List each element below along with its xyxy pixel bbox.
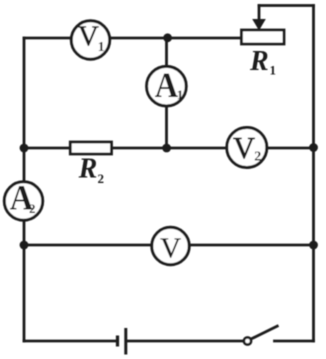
svg-text:A: A [155, 65, 179, 105]
rheostat R1 wiper arrowhead [252, 19, 266, 31]
voltmeter V [152, 227, 189, 264]
resistor R1 (rheostat body) [242, 30, 285, 44]
node junction V row left [20, 241, 29, 250]
voltmeter V2 [227, 128, 267, 168]
node junction top (A1 tap) [163, 33, 172, 42]
svg-text:R: R [249, 46, 269, 77]
node junction V row right [309, 241, 318, 250]
wire middle bus [24, 147, 314, 150]
ammeter A1 [147, 66, 187, 106]
ammeter A2 [4, 182, 42, 220]
wire bottom right stub [275, 340, 314, 343]
svg-text:V: V [160, 233, 181, 265]
wire top bus [24, 37, 241, 40]
svg-text:V: V [78, 21, 99, 53]
switch blade [251, 326, 279, 340]
node junction middle (A1 bottom) [162, 144, 171, 153]
node junction middle right [309, 143, 318, 152]
resistor R2 [70, 142, 111, 154]
svg-text:R: R [78, 153, 98, 184]
wire bottom left [24, 340, 117, 343]
svg-text:V: V [233, 131, 255, 165]
voltmeter V1 [71, 21, 109, 59]
wire wiper stem [258, 6, 261, 21]
wire battery to switch [126, 340, 244, 343]
svg-text:1: 1 [270, 63, 277, 78]
battery cell positive plate [124, 328, 127, 355]
svg-text:2: 2 [98, 171, 105, 186]
wire wiper loop top [259, 4, 314, 7]
wire A1 branch [165, 38, 168, 148]
wire right bus [312, 6, 315, 342]
wire left bus [23, 38, 26, 341]
svg-text:2: 2 [254, 150, 261, 165]
svg-text:1: 1 [177, 87, 184, 102]
wire voltmeter V row [24, 244, 314, 247]
node junction middle left [20, 144, 29, 153]
svg-text:1: 1 [98, 39, 105, 54]
svg-text:2: 2 [29, 201, 36, 216]
switch pivot terminal [244, 337, 251, 344]
battery cell negative plate [116, 336, 119, 347]
